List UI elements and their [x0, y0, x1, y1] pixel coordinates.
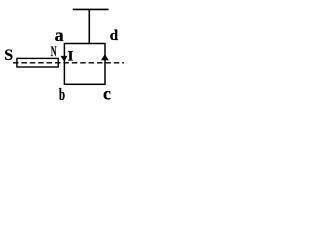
magnet body — [17, 58, 58, 67]
svg-text:N: N — [51, 44, 57, 60]
svg-text:a: a — [55, 25, 64, 45]
svg-text:b: b — [59, 85, 65, 104]
svg-text:S: S — [4, 47, 13, 64]
support stem wire — [88, 9, 90, 44]
svg-text:d: d — [110, 28, 119, 44]
current arrow down on loop left edge — [61, 56, 68, 62]
loop abcd — [64, 44, 105, 85]
svg-text:c: c — [103, 83, 111, 103]
support bar — [73, 8, 109, 10]
current arrow up on loop right edge — [101, 54, 109, 60]
magnet axis dashed line — [13, 62, 124, 64]
svg-text:I: I — [68, 49, 74, 65]
